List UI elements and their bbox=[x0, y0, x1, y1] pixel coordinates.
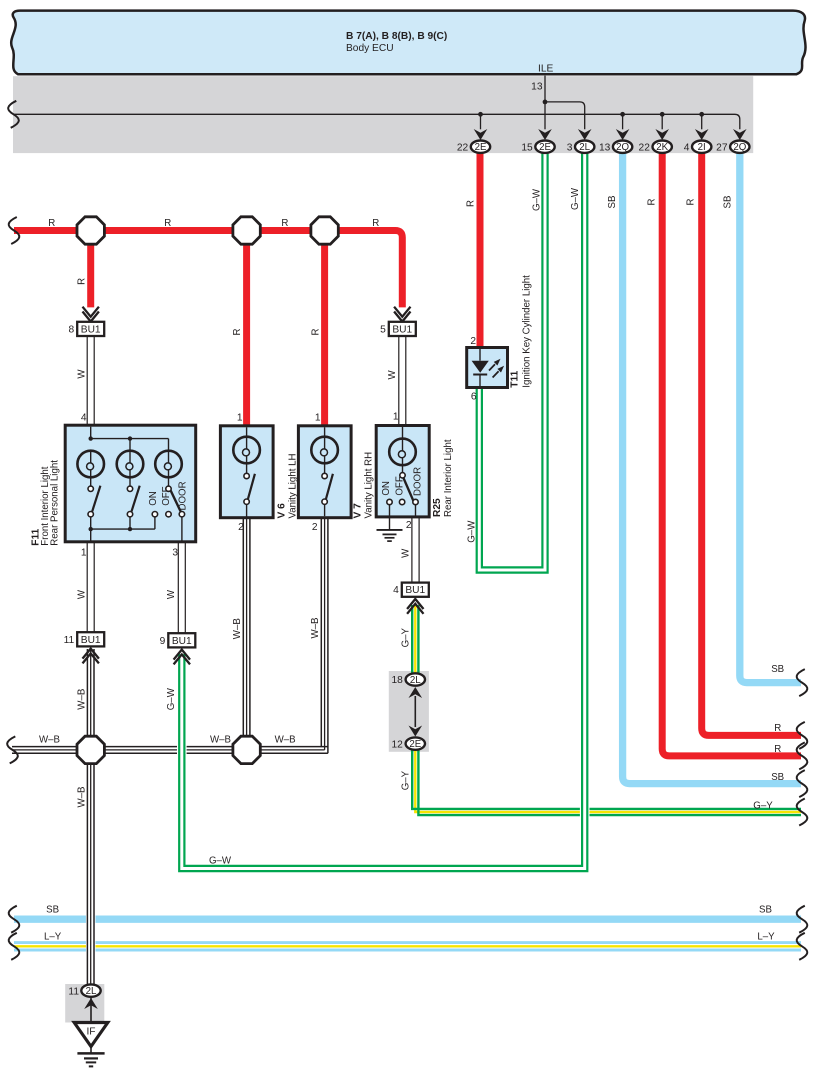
connector oval 2Q pin27 bbox=[730, 141, 749, 153]
svg-text:W–B: W–B bbox=[275, 735, 296, 746]
arrow down into 12-2E bbox=[409, 726, 423, 737]
arrow up into 18-2L bbox=[409, 687, 423, 698]
wire W from F11 pin1 to 11 BU1 bbox=[87, 542, 94, 632]
wire R from 22-2K to right edge bbox=[662, 153, 801, 756]
svg-text:OFF: OFF bbox=[161, 486, 172, 505]
svg-text:L–Y: L–Y bbox=[757, 932, 775, 943]
wire W from 8 BU1 to F11 pin4 bbox=[87, 336, 94, 425]
svg-text:1: 1 bbox=[81, 548, 87, 559]
svg-text:6: 6 bbox=[471, 392, 477, 403]
svg-text:1: 1 bbox=[237, 413, 243, 424]
svg-text:G–W: G–W bbox=[209, 856, 232, 867]
wire SB from 27-2Q to right edge bbox=[740, 153, 801, 683]
svg-text:DOOR: DOOR bbox=[412, 467, 423, 496]
break mark R right 756 bbox=[797, 742, 808, 769]
break mark G-Y right bbox=[797, 799, 808, 826]
svg-text:2: 2 bbox=[238, 522, 244, 533]
junction octagon J3 on R net bbox=[311, 217, 338, 244]
wire W from 5 BU1 to R25 pin1 bbox=[399, 336, 406, 426]
svg-text:G–W: G–W bbox=[467, 520, 478, 543]
wire G-W from 3-2L down, across and up to 9 BU1 bbox=[580, 803, 590, 821]
svg-text:2: 2 bbox=[312, 522, 318, 533]
switch blade V6 bbox=[248, 474, 255, 499]
svg-text:W: W bbox=[387, 369, 398, 379]
svg-text:11: 11 bbox=[64, 635, 75, 646]
svg-text:2Q: 2Q bbox=[616, 142, 629, 153]
svg-text:G–W: G–W bbox=[570, 187, 581, 210]
svg-text:R: R bbox=[372, 218, 379, 229]
arrow into 2K pin22 bbox=[655, 129, 669, 140]
gray box connector 11-2L bottom bbox=[65, 984, 104, 1023]
svg-text:2L: 2L bbox=[410, 675, 421, 686]
svg-text:R: R bbox=[76, 278, 87, 285]
junction octagon J5 on W-B net bbox=[233, 736, 260, 763]
svg-text:SB: SB bbox=[771, 664, 784, 675]
svg-text:2L: 2L bbox=[86, 986, 97, 997]
break mark SB right 682 bbox=[797, 669, 808, 696]
svg-text:18: 18 bbox=[391, 675, 403, 686]
wire ILE branch to 2L pin3 bbox=[545, 102, 585, 129]
wire stub to 2K pin22 bbox=[661, 114, 663, 129]
svg-text:4: 4 bbox=[81, 413, 87, 424]
svg-text:SB: SB bbox=[759, 905, 772, 916]
wire SB from 13-2Q to right edge bbox=[623, 153, 801, 784]
switch blade F11-1 bbox=[92, 486, 100, 512]
wire R drop to V7 bbox=[321, 240, 328, 427]
svg-text:2: 2 bbox=[470, 336, 476, 347]
svg-text:Vanity Light LH: Vanity Light LH bbox=[288, 454, 299, 519]
svg-text:ON: ON bbox=[148, 491, 159, 506]
svg-text:R: R bbox=[774, 744, 781, 755]
svg-text:8: 8 bbox=[69, 324, 75, 335]
svg-text:G–W: G–W bbox=[166, 687, 177, 710]
svg-text:11: 11 bbox=[68, 986, 79, 997]
connector 8 BU1 bbox=[77, 322, 104, 336]
svg-text:R25: R25 bbox=[432, 498, 443, 517]
connector oval 2E pin15 bbox=[535, 141, 554, 153]
svg-text:R: R bbox=[685, 199, 696, 206]
svg-text:W–B: W–B bbox=[232, 618, 243, 639]
svg-text:L–Y: L–Y bbox=[44, 932, 62, 943]
arrow into 2E pin15 bbox=[538, 129, 552, 140]
LED T11 Ignition Key Cylinder Light bbox=[467, 348, 508, 388]
wire R red main interior light feed bbox=[14, 231, 402, 308]
arrow into 2L pin3 bbox=[578, 129, 592, 140]
svg-text:2I: 2I bbox=[698, 142, 706, 153]
lamp R25 Rear Interior Light bbox=[376, 426, 429, 517]
svg-text:SB: SB bbox=[46, 905, 59, 916]
svg-text:2E: 2E bbox=[409, 739, 421, 750]
svg-text:W–B: W–B bbox=[76, 689, 87, 710]
svg-text:2: 2 bbox=[406, 520, 412, 531]
junction octagon J2 on R net bbox=[233, 217, 260, 244]
arrow into 2E pin22 bbox=[474, 129, 488, 140]
svg-text:12: 12 bbox=[391, 739, 403, 750]
wire W-B from 11 BU1 down to junction bbox=[87, 649, 94, 738]
arrow chevrons from 4 BU1 bbox=[407, 599, 423, 614]
svg-text:V 6: V 6 bbox=[277, 503, 288, 519]
lamp F11-1 bbox=[77, 451, 104, 478]
arrow into 2I pin4 bbox=[695, 129, 709, 140]
svg-text:G–Y: G–Y bbox=[753, 801, 773, 812]
ground IF triangle bbox=[74, 1023, 108, 1047]
svg-text:R: R bbox=[232, 329, 243, 336]
wire R from 22-2E to T11 pin2 bbox=[477, 153, 484, 349]
wire stub to 2I pin4 bbox=[701, 114, 703, 129]
wire stub to 2E pin22 bbox=[480, 114, 482, 129]
wire G-Y upper segment from 4 BU1 to 18-2L bbox=[412, 605, 418, 675]
arrow chevrons into 8 BU1 bbox=[83, 307, 99, 322]
switch blade R25 DOOR closed bbox=[403, 478, 414, 503]
svg-text:DOOR: DOOR bbox=[178, 481, 189, 510]
svg-text:BU1: BU1 bbox=[392, 324, 412, 335]
connector 5 BU1 bbox=[389, 322, 416, 336]
svg-text:G–Y: G–Y bbox=[401, 627, 412, 647]
svg-text:R: R bbox=[311, 329, 322, 336]
wire R from 4-2I to right edge bbox=[702, 153, 801, 736]
svg-text:3: 3 bbox=[567, 142, 573, 153]
svg-text:V 7: V 7 bbox=[353, 503, 364, 519]
svg-text:15: 15 bbox=[521, 142, 533, 153]
wire L-Y bottom horizontal bbox=[14, 943, 801, 950]
break mark SB bottom left bbox=[9, 906, 20, 933]
svg-text:B 7(A), B 8(B), B 9(C): B 7(A), B 8(B), B 9(C) bbox=[346, 31, 447, 42]
switch blade F11-2 bbox=[132, 486, 140, 512]
switch blade F11-3 DOOR position bbox=[171, 490, 181, 511]
wire ILE from Body ECU bbox=[544, 76, 546, 130]
wire G-Y lower segment from 12-2E to right edge bbox=[412, 749, 801, 815]
svg-text:W–B: W–B bbox=[76, 787, 87, 808]
svg-text:SB: SB bbox=[607, 196, 618, 209]
break mark L-Y bottom right bbox=[797, 933, 808, 960]
svg-text:13: 13 bbox=[599, 142, 611, 153]
break mark R net left bbox=[9, 217, 20, 244]
svg-text:W: W bbox=[76, 369, 87, 379]
LED triangle bbox=[472, 361, 489, 373]
lamp V7 Vanity Light RH bbox=[298, 426, 351, 518]
gray box pass-through connector 18-2L/12-2E bbox=[389, 671, 429, 752]
gray ECU connector band bbox=[13, 76, 753, 153]
arrow into 2Q pin13 bbox=[616, 129, 630, 140]
svg-text:5: 5 bbox=[380, 324, 386, 335]
svg-text:2L: 2L bbox=[579, 142, 590, 153]
svg-text:R: R bbox=[164, 218, 171, 229]
svg-text:W–B: W–B bbox=[39, 735, 60, 746]
svg-text:IF: IF bbox=[86, 1027, 95, 1038]
svg-text:Rear Interior Light: Rear Interior Light bbox=[443, 439, 454, 517]
svg-text:R: R bbox=[647, 199, 658, 206]
svg-text:22: 22 bbox=[639, 142, 651, 153]
svg-text:2E: 2E bbox=[539, 142, 551, 153]
svg-text:2K: 2K bbox=[656, 142, 668, 153]
junction octagon J4 on W-B net bbox=[77, 736, 104, 763]
Body ECU banner bbox=[11, 11, 805, 75]
break mark SB right 783 bbox=[797, 770, 808, 797]
connector 4 BU1 bbox=[402, 583, 429, 597]
svg-text:R: R bbox=[466, 200, 477, 207]
svg-text:G–Y: G–Y bbox=[401, 770, 412, 790]
svg-text:W: W bbox=[76, 589, 87, 599]
svg-text:SB: SB bbox=[723, 196, 734, 209]
svg-text:R: R bbox=[48, 218, 55, 229]
svg-text:4: 4 bbox=[393, 585, 399, 596]
lamp F11-2 bbox=[117, 451, 144, 478]
LED light arrows bbox=[489, 364, 495, 370]
wire W-B from V6 pin2 down to junction bbox=[243, 518, 250, 738]
connector oval 2L pin11 (ground) bbox=[81, 984, 100, 996]
svg-text:1: 1 bbox=[393, 412, 399, 423]
break mark L-Y bottom left bbox=[9, 933, 20, 960]
svg-text:ILE: ILE bbox=[538, 64, 553, 75]
svg-text:4: 4 bbox=[684, 142, 690, 153]
wire stub to 2Q pin13 bbox=[622, 114, 624, 129]
svg-text:BU1: BU1 bbox=[405, 585, 425, 596]
connector oval 2K pin22 bbox=[653, 141, 672, 153]
break mark gray band net bbox=[8, 101, 19, 128]
connector 9 BU1 bbox=[168, 633, 195, 647]
svg-text:2Q: 2Q bbox=[733, 142, 746, 153]
wire W from R25 pin2 to 4 BU1 bbox=[412, 517, 419, 583]
wire SB bottom horizontal bbox=[14, 916, 801, 923]
node ILE junction dot bbox=[543, 100, 548, 105]
svg-text:BU1: BU1 bbox=[81, 324, 101, 335]
svg-text:1: 1 bbox=[315, 413, 321, 424]
svg-text:ON: ON bbox=[381, 481, 392, 496]
break mark W-B net left bbox=[7, 736, 18, 763]
junction octagon J1 on R net bbox=[77, 217, 104, 244]
svg-text:OFF: OFF bbox=[394, 476, 405, 495]
wire W-B from V7 pin2 down to ground net bbox=[321, 518, 328, 754]
switch contacts F11 bbox=[88, 486, 93, 491]
svg-text:W: W bbox=[166, 589, 177, 599]
lamp V6 Vanity Light LH bbox=[220, 426, 273, 518]
svg-text:Ignition Key Cylinder Light: Ignition Key Cylinder Light bbox=[522, 275, 533, 388]
svg-text:9: 9 bbox=[160, 636, 166, 647]
svg-text:27: 27 bbox=[716, 142, 728, 153]
wire W-B from junction down to 11-2L ground connector bbox=[86, 910, 96, 956]
switch blade V7 bbox=[326, 474, 333, 499]
arrow up into 11-2L bbox=[84, 998, 98, 1009]
ground symbol bottom bbox=[90, 1047, 92, 1054]
wire R drop to 8 BU1 bbox=[87, 240, 94, 307]
svg-text:R: R bbox=[281, 218, 288, 229]
wire W from F11 pin3 to 9 BU1 bbox=[178, 542, 185, 633]
svg-text:W–B: W–B bbox=[310, 618, 321, 639]
break mark R right 735 bbox=[797, 722, 808, 749]
svg-text:BU1: BU1 bbox=[81, 635, 101, 646]
relay F11 Front Interior Light / Rear Personal Light bbox=[65, 425, 196, 542]
wire: main feed net in gray band bbox=[14, 114, 740, 129]
svg-text:W–B: W–B bbox=[210, 735, 231, 746]
svg-text:R: R bbox=[774, 723, 781, 734]
connector oval 2L pin3 bbox=[575, 141, 594, 153]
svg-text:13: 13 bbox=[531, 82, 543, 93]
arrow chevrons into 5 BU1 bbox=[394, 307, 410, 322]
connector oval 2E pin12 bbox=[406, 737, 425, 749]
connector pass-through line 18-2L to 12-2E bbox=[414, 696, 416, 727]
svg-text:T11: T11 bbox=[510, 370, 521, 387]
svg-text:3: 3 bbox=[172, 548, 178, 559]
lamp F11-3 bbox=[155, 451, 182, 478]
svg-text:SB: SB bbox=[771, 772, 784, 783]
node junction dots on feed net bbox=[478, 112, 483, 117]
wire to IF ground triangle bbox=[90, 997, 92, 1023]
svg-text:BU1: BU1 bbox=[172, 636, 192, 647]
svg-text:Body ECU: Body ECU bbox=[346, 43, 394, 54]
connector 11 BU1 bbox=[77, 632, 104, 646]
svg-text:Vanity Light RH: Vanity Light RH bbox=[364, 452, 375, 519]
connector oval 2Q pin13 bbox=[613, 141, 632, 153]
wire W-B horizontal ground net bbox=[12, 747, 328, 754]
ground symbol R25 bbox=[377, 530, 403, 541]
wire R drop to V6 bbox=[243, 240, 250, 427]
connector oval 2E pin22 bbox=[471, 141, 490, 153]
arrow into 2Q pin27 bbox=[733, 129, 747, 140]
svg-text:22: 22 bbox=[457, 142, 469, 153]
arrow chevrons from 9 BU1 bbox=[174, 650, 190, 665]
connector oval 2I pin4 bbox=[692, 141, 711, 153]
svg-text:W: W bbox=[400, 548, 411, 558]
svg-text:G–W: G–W bbox=[532, 188, 543, 211]
svg-text:2E: 2E bbox=[475, 142, 487, 153]
svg-text:Rear Personal Light: Rear Personal Light bbox=[50, 460, 61, 546]
break mark SB bottom right bbox=[797, 906, 808, 933]
connector oval 2L pin18 bbox=[406, 673, 425, 685]
arrow chevrons from 11 BU1 bbox=[83, 649, 99, 664]
wire G-W from 15-2E to T11 pin6 (U route) bbox=[477, 153, 548, 573]
